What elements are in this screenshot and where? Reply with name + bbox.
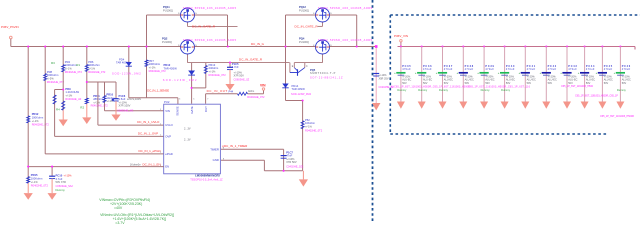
svg-text:+/-10%: +/-10% (64, 175, 73, 178)
svg-text:470uF: 470uF (465, 68, 474, 71)
svg-text:DC_IN_1_ePGD: DC_IN_1_ePGD (139, 149, 162, 153)
svg-text:R2: R2 (80, 105, 84, 109)
svg-text:2...3V: 2...3V (184, 139, 191, 142)
svg-text:DC_IN_G: DC_IN_G (251, 42, 265, 46)
svg-text:100Kohm: 100Kohm (149, 62, 161, 66)
svg-text:DC_IN_1_EN: DC_IN_1_EN (143, 162, 161, 166)
svg-text:DC_IN_GATE_R: DC_IN_GATE_R (295, 24, 319, 28)
svg-text:Dummy: Dummy (617, 88, 627, 92)
svg-text:47nF: 47nF (286, 154, 292, 158)
svg-text:pDC_IN_1_TIMER: pDC_IN_1_TIMER (222, 144, 248, 148)
svg-text:R0402HE_0T2: R0402HE_0T2 (65, 70, 83, 74)
svg-text:470uF: 470uF (444, 68, 453, 71)
svg-text:X7R 50V: X7R 50V (234, 74, 245, 78)
svg-text:0ohm: 0ohm (248, 90, 254, 93)
svg-text:SOT-23-8B/241_1Z: SOT-23-8B/241_1Z (310, 75, 343, 79)
svg-text:R0402HE_0T2: R0402HE_0T2 (88, 70, 106, 74)
svg-text:470uF: 470uF (604, 68, 613, 71)
svg-text:+/-1%: +/-1% (32, 119, 40, 123)
svg-text:PU106Q: PU106Q (299, 8, 309, 12)
svg-text:50V: 50V (423, 82, 428, 85)
svg-text:470uF: 470uF (568, 68, 577, 71)
svg-text:GND: GND (213, 158, 219, 162)
svg-text:100Kohm: 100Kohm (31, 176, 43, 180)
svg-text:LM5066MWANGR5: LM5066MWANGR5 (195, 173, 220, 177)
svg-text:P36V_PhVIN: P36V_PhVIN (1, 25, 19, 29)
svg-text:PQ5: PQ5 (310, 68, 316, 72)
svg-text:=3.7V: =3.7V (115, 221, 125, 225)
svg-text:+/-1%: +/-1% (305, 124, 313, 128)
svg-text:TIMER: TIMER (210, 147, 219, 151)
svg-text:SENSE: SENSE (176, 106, 180, 116)
svg-text:TO252_5P0SD_4O6_104605_AOD5: TO252_5P0SD_4O6_104605_AOD5 (318, 6, 373, 10)
svg-text:X5R 35V: X5R 35V (379, 77, 389, 80)
svg-text:470uF: 470uF (622, 68, 631, 71)
svg-text:TAR 40SW: TAR 40SW (116, 61, 130, 65)
svg-text:R0402HE_0T2: R0402HE_0T2 (209, 73, 227, 77)
svg-text:DC_IN_1_SENSE: DC_IN_1_SENSE (147, 88, 169, 92)
svg-text:+/-1%: +/-1% (31, 180, 39, 184)
svg-text:ePGD: ePGD (165, 152, 173, 156)
svg-text:470uF: 470uF (506, 68, 515, 71)
svg-text:1Kohm0e: 1Kohm0e (130, 163, 141, 166)
svg-text:GATE: GATE (190, 106, 194, 114)
svg-text:P36V_VIN: P36V_VIN (394, 34, 408, 38)
svg-text:+/-1%: +/-1% (88, 66, 96, 70)
svg-text:DC_IN_GATE_R: DC_IN_GATE_R (239, 58, 263, 62)
svg-text:Dummy: Dummy (56, 188, 66, 192)
svg-text:TSSOP10-0.5_5x4_4mil_1Z: TSSOP10-0.5_5x4_4mil_1Z (190, 178, 223, 182)
svg-text:EN: EN (165, 165, 169, 169)
svg-text:4.7nF: 4.7nF (232, 65, 239, 69)
svg-text:X7R 50V: X7R 50V (286, 160, 297, 164)
svg-text:50V: 50V (506, 82, 511, 85)
svg-text:R3: R3 (51, 61, 55, 65)
svg-text:50V: 50V (444, 82, 449, 85)
svg-text:4.7uF: 4.7uF (56, 177, 63, 181)
svg-text:+/-5%: +/-5% (47, 76, 55, 80)
svg-text:DC_IN_1_OVP: DC_IN_1_OVP (138, 131, 158, 135)
svg-text:470uF: 470uF (586, 68, 595, 71)
svg-text:1.21KOHW: 1.21KOHW (65, 90, 79, 94)
svg-text:TAR 40SW: TAR 40SW (292, 87, 306, 91)
svg-text:SMBT3904-T-P: SMBT3904-T-P (310, 71, 336, 75)
svg-text:VIN: VIN (165, 109, 170, 113)
svg-text:470uF: 470uF (402, 68, 411, 71)
svg-text:50V: 50V (622, 82, 627, 85)
svg-text:C0603HE_0Z: C0603HE_0Z (234, 78, 250, 82)
svg-text:+/-1%: +/-1% (209, 69, 217, 73)
svg-text:50V: 50V (402, 82, 407, 85)
svg-text:50V X7R: 50V X7R (56, 180, 67, 184)
svg-text:470uF: 470uF (527, 68, 536, 71)
svg-text:PU2: PU2 (164, 100, 170, 104)
svg-text:R0402HE_0T2: R0402HE_0T2 (247, 95, 265, 99)
svg-text:TO252_5P0SD_4O6_104605_AOD5: TO252_5P0SD_4O6_104605_AOD5 (183, 6, 237, 10)
svg-text:X7R 100V: X7R 100V (119, 104, 131, 108)
svg-text:=40V: =40V (114, 206, 123, 210)
svg-text:R0402HE_0T2: R0402HE_0T2 (91, 104, 109, 108)
svg-text:OUT: OUT (204, 106, 208, 112)
svg-text:50V: 50V (465, 82, 470, 85)
svg-text:C65_1P_6ST_1161003_H500R_C65_1: C65_1P_6ST_1161003_H500R_C65_1P_6ST_116 (468, 84, 531, 88)
svg-text:100Kohm: 100Kohm (32, 115, 44, 119)
svg-text:C65_1P_6ST_1161003_H500R: C65_1P_6ST_1161003_H500R (600, 114, 634, 118)
svg-text:R4: R4 (56, 107, 60, 111)
svg-text:1.5uF: 1.5uF (119, 97, 126, 101)
svg-text:50V: 50V (527, 82, 532, 85)
svg-text:240ohm: 240ohm (209, 66, 219, 70)
svg-text:50V: 50V (485, 82, 490, 85)
svg-text:R1: R1 (76, 63, 80, 67)
svg-text:+/-1%: +/-1% (65, 66, 73, 70)
svg-text:2...3V: 2...3V (184, 128, 191, 131)
svg-text:C65_1P_6ST_1161003_H500R_C65_1: C65_1P_6ST_1161003_H500R_C65_1P_6ST_1161… (394, 84, 470, 88)
svg-text:SOD-123W_0M2: SOD-123W_0M2 (291, 92, 312, 96)
svg-text:C65_1P_6ST_1161003_H500: C65_1P_6ST_1161003_H500 (561, 84, 594, 88)
svg-text:50V: 50V (604, 82, 609, 85)
svg-text:VIN: VIN (260, 83, 266, 87)
svg-text:UVLO: UVLO (165, 123, 173, 127)
svg-text:TAR 40SW: TAR 40SW (164, 66, 178, 70)
svg-text:470uF: 470uF (548, 68, 557, 71)
svg-text:50V: 50V (548, 82, 553, 85)
svg-text:TO252_5P0SD_4O6_104605_AOD5: TO252_5P0SD_4O6_104605_AOD5 (183, 38, 237, 42)
svg-text:TO252_5P0SD_4O6_104605_AOD5: TO252_5P0SD_4O6_104605_AOD5 (318, 38, 373, 42)
svg-text:10Kohm: 10Kohm (305, 121, 316, 125)
svg-text:470uF: 470uF (423, 68, 432, 71)
svg-text:OVP: OVP (165, 134, 171, 138)
svg-text:P44: P44 (229, 90, 234, 94)
svg-text:DC_IN_OUT: DC_IN_OUT (207, 89, 228, 93)
svg-text:R0402HE_0T2: R0402HE_0T2 (47, 80, 65, 84)
svg-text:C0402HE_0Z2: C0402HE_0Z2 (286, 164, 304, 168)
svg-text:+/-1%: +/-1% (149, 65, 157, 69)
svg-text:R0402HE_0T2: R0402HE_0T2 (32, 123, 50, 127)
svg-text:100Kohm: 100Kohm (47, 73, 59, 77)
svg-text:+/-1%: +/-1% (65, 93, 73, 97)
svg-text:DC_IN_GATE_R: DC_IN_GATE_R (192, 24, 216, 28)
svg-text:PU106Q: PU106Q (299, 40, 309, 44)
svg-text:PU106Q: PU106Q (162, 40, 172, 44)
svg-text:R0402HE_A0: R0402HE_A0 (65, 97, 81, 101)
svg-text:C0603HE_5A2: C0603HE_5A2 (56, 184, 74, 188)
svg-text:470uF: 470uF (485, 68, 494, 71)
svg-text:SOD-123W_0M2: SOD-123W_0M2 (112, 71, 141, 75)
svg-text:R0402HE_0T2: R0402HE_0T2 (305, 128, 323, 132)
svg-text:DC_IN_1_UVLO: DC_IN_1_UVLO (137, 120, 160, 124)
svg-text:PU106Q: PU106Q (163, 8, 173, 12)
svg-text:R0402HE_0T2: R0402HE_0T2 (31, 184, 49, 188)
svg-text:C65_1P_6ST_1161003_H500R_C65_1: C65_1P_6ST_1161003_H500R_C65_1P (575, 94, 618, 98)
svg-text:C0805HE_M2: C0805HE_M2 (117, 109, 134, 113)
svg-text:100Kohm: 100Kohm (88, 63, 100, 67)
